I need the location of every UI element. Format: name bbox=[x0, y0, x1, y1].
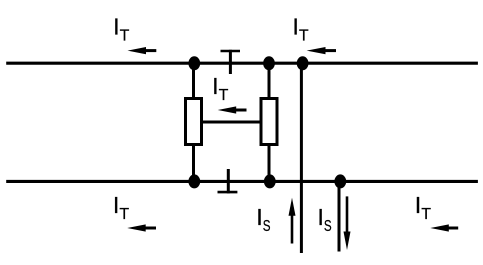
feed-through terminal T symbol on top rail bbox=[221, 50, 241, 74]
svg-text:IS: IS bbox=[256, 204, 270, 235]
arrow: middle current direction (left) bbox=[218, 106, 247, 113]
arrow: source current down bbox=[344, 196, 351, 250]
arrow: top-left current direction (left) bbox=[128, 47, 157, 54]
wire: vertical feed line from top rail crossing bottom rail bbox=[300, 63, 303, 253]
wire: left resistor top lead bbox=[192, 63, 195, 99]
svg-text:IT: IT bbox=[212, 73, 229, 104]
svg-text:IT: IT bbox=[292, 14, 309, 45]
junction dot: top rail / right resistor bbox=[263, 56, 275, 70]
wire: left resistor bottom lead bbox=[192, 145, 195, 182]
arrow: bottom-right current direction (left) bbox=[430, 224, 458, 231]
resistor R2 (right) bbox=[261, 99, 277, 145]
svg-text:IS: IS bbox=[317, 204, 331, 235]
arrow: source current up bbox=[289, 198, 296, 244]
junction dot: top rail / left resistor bbox=[188, 56, 200, 70]
arrow: top-right current direction (left) bbox=[307, 47, 336, 54]
junction dot: top rail / feed line bbox=[297, 56, 309, 70]
svg-text:IT: IT bbox=[113, 192, 129, 223]
svg-text:IT: IT bbox=[415, 192, 432, 223]
arrow: bottom-left current direction (left) bbox=[127, 224, 156, 231]
junction dot: bottom rail / right resistor bbox=[264, 174, 276, 188]
wire: bottom conductor rail bbox=[6, 180, 478, 183]
wire: right resistor top lead bbox=[268, 63, 271, 99]
resistor R1 (left) bbox=[186, 99, 202, 145]
wire: connector between resistor midpoints bbox=[201, 121, 261, 124]
wire: top conductor rail bbox=[6, 62, 478, 65]
feed-through terminal inverted-T symbol on bottom rail bbox=[218, 169, 238, 193]
wire: vertical stub line from bottom rail bbox=[338, 181, 341, 252]
junction dot: bottom rail / stub line bbox=[334, 174, 346, 188]
junction dot: bottom rail / left resistor bbox=[188, 174, 200, 188]
svg-text:IT: IT bbox=[113, 14, 130, 45]
wire: right resistor bottom lead bbox=[268, 145, 271, 182]
